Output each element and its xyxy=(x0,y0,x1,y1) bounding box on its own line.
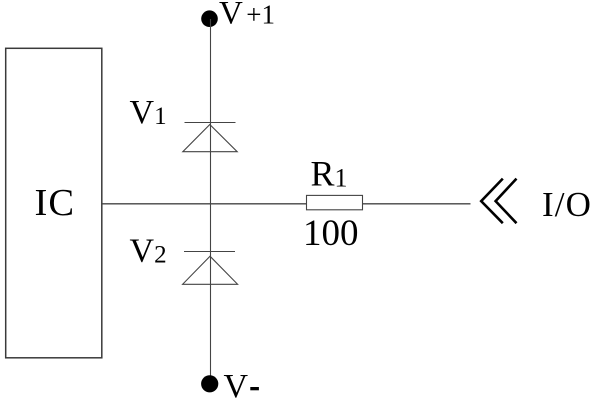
svg-text:IC: IC xyxy=(35,182,76,224)
IC box xyxy=(6,48,102,358)
resistor R1 body xyxy=(307,195,363,209)
svg-text:I/O: I/O xyxy=(542,185,592,224)
svg-text:V+1: V+1 xyxy=(219,0,275,32)
wire: R1 to I/O port xyxy=(362,203,470,205)
wire: IC pin to R1 xyxy=(102,203,306,205)
wire: vertical V+1 to V- xyxy=(210,19,212,384)
diode V2 xyxy=(183,252,238,285)
svg-text:100: 100 xyxy=(303,213,359,254)
svg-text:V: V xyxy=(224,368,249,400)
I/O port chevron xyxy=(481,179,516,224)
diode V1 xyxy=(183,123,237,152)
node V- dot xyxy=(201,375,218,392)
node V+1 dot xyxy=(201,10,218,27)
label V- xyxy=(224,368,259,405)
